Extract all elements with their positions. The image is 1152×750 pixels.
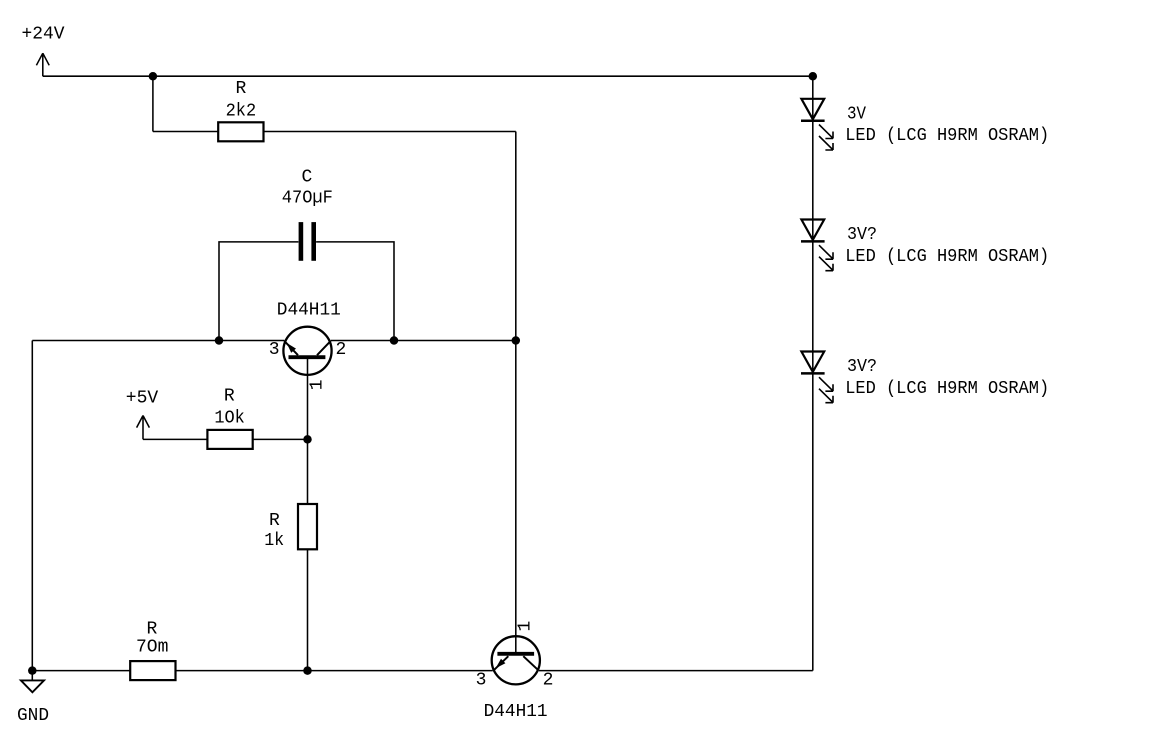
svg-text:R: R [269,511,280,531]
svg-text:2: 2 [335,340,346,360]
svg-text:3: 3 [269,340,280,360]
svg-text:1: 1 [307,379,327,390]
svg-text:1: 1 [516,621,536,632]
svg-text:R: R [235,79,246,99]
svg-text:D44H11: D44H11 [277,300,341,320]
svg-text:3: 3 [476,670,487,690]
svg-text:LED (LCG H9RM OSRAM): LED (LCG H9RM OSRAM) [845,379,1049,399]
svg-text:1k: 1k [264,531,284,551]
svg-text:1Ok: 1Ok [214,409,245,429]
svg-text:2: 2 [543,670,554,690]
svg-text:2k2: 2k2 [226,102,257,122]
svg-text:7Om: 7Om [136,638,168,658]
svg-text:R: R [224,386,235,406]
svg-text:+5V: +5V [126,388,159,408]
svg-text:D44H11: D44H11 [484,702,548,722]
svg-text:R: R [146,619,157,639]
svg-text:LED (LCG H9RM OSRAM): LED (LCG H9RM OSRAM) [845,247,1049,267]
svg-text:3V?: 3V? [847,357,877,377]
svg-text:+24V: +24V [22,25,65,45]
svg-text:C: C [301,168,312,188]
svg-text:3V?: 3V? [847,225,877,245]
svg-text:LED (LCG H9RM OSRAM): LED (LCG H9RM OSRAM) [845,126,1049,146]
svg-text:GND: GND [17,706,49,726]
svg-text:47OµF: 47OµF [282,189,333,209]
svg-text:3V: 3V [847,104,866,124]
